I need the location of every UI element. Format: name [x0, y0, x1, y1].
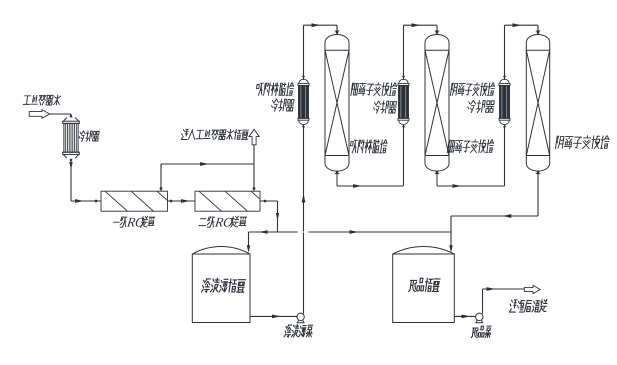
text: 冷却器 (cooler E2 label line2) [271, 99, 295, 111]
tank T1 渗透液储罐 [192, 254, 250, 323]
pump P1 渗透液泵 [297, 313, 305, 323]
text: 吸附树脂塔 (column C1 label) [349, 140, 387, 153]
wire: concentrate return RO1 top [160, 164, 162, 191]
wire: RO1 to RO2 [168, 200, 196, 202]
text: 渗透液泵 [284, 325, 313, 338]
cooler E4 阴离子交换塔冷却器 [499, 75, 510, 127]
text: 进入工业双氧水储罐 [181, 129, 249, 139]
wire: T2 suction to pump P2 [454, 315, 476, 317]
RO unit 1 一级RO装置 [79, 191, 180, 211]
cooler E3 阳离子交换塔冷却器 [398, 75, 409, 127]
wire: concentrate return RO2 top / to storage [253, 145, 255, 191]
text: 冷却器 (cooler E3 label line2) [373, 101, 397, 113]
text: 阳离子交换塔 (cooler E3 label line1) [351, 83, 397, 96]
text: 冷却器 (cooler E4 label line2) [467, 100, 495, 112]
column C1 吸附树脂塔 [325, 31, 349, 186]
wire: column C1 bottom to cooler E3 [337, 185, 404, 187]
text: 成品储罐 [409, 278, 441, 291]
cooler E2 吸附树脂塔冷却器 [298, 75, 309, 127]
wire: pump P1 riser to cooler E2 [303, 233, 305, 314]
wire: column C3 bottom to product tank [537, 172, 539, 216]
text: 阴离子交换塔 (column C3 label) [555, 136, 609, 149]
text: 冷却器 (E1) [78, 131, 99, 141]
text: 渗透液储罐 [201, 278, 245, 292]
cooler E1 (feed cooler 冷却器) [63, 115, 80, 161]
column C3 阴离子交换塔 [526, 31, 549, 174]
RO unit 2 二级RO装置 [173, 191, 274, 211]
wire: column C2 bottom to cooler E4 [437, 185, 505, 187]
text: 工业双氧水 [23, 95, 61, 105]
wire: cooler E4 top to column C3 [504, 25, 506, 80]
arrow down after E1 [69, 162, 72, 170]
pump P2 成品泵 [475, 313, 483, 323]
text: 阳离子交换塔 (column C2 label) [447, 140, 494, 153]
node: RO1 inlet flange [95, 200, 98, 203]
text: 过滤后灌装 [509, 300, 548, 313]
wire: T1 suction to pump P1 [250, 315, 297, 317]
text: 一级RO装置 [112, 214, 155, 229]
wire: main header right segment (to product tank) [309, 231, 452, 233]
wire: drop into permeate tank [248, 232, 250, 248]
wire: feed inlet to cooler E1 [50, 113, 72, 115]
tank T2 成品储罐 [393, 254, 455, 323]
wire: main header left segment (to permeate tank) [249, 231, 298, 233]
text: 阴离子交换塔 (cooler E4 label line1) [450, 83, 495, 96]
text: 成品泵 [471, 326, 491, 338]
text: 吸附树脂塔 (cooler E2 label line1) [256, 83, 295, 96]
wire: E1 outlet down & to RO1 [70, 161, 72, 202]
text: 二级RO装置 [198, 214, 247, 229]
wire: pump P2 to filling [482, 289, 484, 314]
wire: cooler E3 top to column C2 [403, 25, 405, 80]
hollow block arrow: feed inlet [29, 110, 50, 119]
wire: RO2 permeate out [260, 200, 278, 202]
column C2 阳离子交换塔 [425, 31, 449, 186]
arrow into RO1 [75, 199, 84, 203]
wire: cooler E2 top to column C1 [303, 25, 305, 80]
hollow up arrow: to storage tank [249, 129, 259, 145]
hollow right arrow: filling outlet [524, 285, 540, 293]
